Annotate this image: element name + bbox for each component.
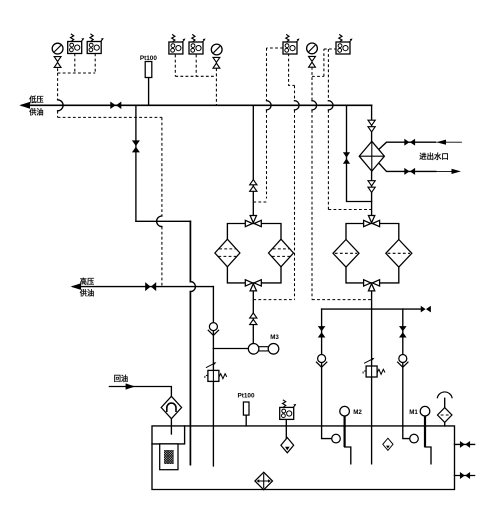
pressure gauge G2 xyxy=(211,44,222,55)
temperature sensor Pt100-2 xyxy=(243,402,249,415)
wire main low-pressure supply line xyxy=(22,104,372,106)
wire return oil line xyxy=(109,387,171,397)
filter diamond left duplex left xyxy=(215,239,240,267)
svg-text:回油: 回油 xyxy=(114,374,128,383)
wire trunk down to tank at x=190 xyxy=(189,221,191,464)
pump circle in tank right xyxy=(410,434,419,443)
three-way changeover valve right duplex top xyxy=(364,216,380,227)
wire block B6 left port pilot xyxy=(267,48,284,199)
strainer mesh in tank xyxy=(164,450,174,464)
check valve diamond under B5 xyxy=(281,438,294,453)
wire hop B6 bottom pilot over main line xyxy=(295,101,300,110)
wire breather drop to tank top xyxy=(444,398,446,426)
svg-text:低压: 低压 xyxy=(28,95,44,104)
wire pump M3 discharge header y=348.5 xyxy=(213,348,248,350)
ball check valve on right pump branch xyxy=(397,355,408,368)
wire pilot connect left duplex bottom y=299.6 xyxy=(253,299,294,301)
shutoff valve on branch x=136 xyxy=(132,140,140,152)
wire high-pressure supply line xyxy=(73,286,213,288)
pressure switch B2 xyxy=(87,34,104,54)
wire return filter to tank box xyxy=(170,419,172,434)
pressure gauge G1 xyxy=(52,43,63,54)
pump circle in tank left xyxy=(332,434,341,443)
wire left pump branch x=321.6 xyxy=(322,309,332,439)
temperature sensor Pt100-1 xyxy=(145,62,152,78)
check valve diamond in tank right xyxy=(383,438,393,450)
heat exchanger cooler xyxy=(359,141,384,171)
wire left duplex loop xyxy=(227,224,281,283)
check valve pair above pump M3 xyxy=(250,313,257,318)
wire right feed corner from main line xyxy=(371,105,373,215)
wire gauge G3 sense line down xyxy=(311,67,313,300)
node arrow high-pressure supply outlet xyxy=(71,283,81,290)
drain diamond with cross on tank bottom xyxy=(255,472,273,490)
wire G3 branch to block B7 left port xyxy=(312,49,336,76)
gauge isolator valve under G1 xyxy=(54,57,61,68)
wire left duplex feed from main line x=253 xyxy=(252,105,254,215)
motor M1 circle xyxy=(420,406,430,416)
wire pilot connect right duplex bottom y=299.6 xyxy=(312,299,372,301)
filter diamond right duplex left xyxy=(333,240,359,268)
motor M2 circle xyxy=(340,406,350,416)
drain valve lower on tank side xyxy=(460,472,470,479)
wire Pt100-2 drop to tank xyxy=(245,415,247,426)
svg-text:Pt100: Pt100 xyxy=(140,55,157,62)
wire right duplex loop xyxy=(346,224,399,283)
air breather arc xyxy=(437,392,452,398)
tank rectangle xyxy=(152,426,455,490)
wire Pt100 sensor drop to main line xyxy=(148,78,150,106)
wire block B6 bottom port pilot xyxy=(289,54,295,300)
valve on HP supply line xyxy=(145,282,156,291)
wire heat-exchanger bypass branch x=346.5 xyxy=(347,105,372,201)
svg-text:Pt100: Pt100 xyxy=(237,393,254,400)
svg-text:M2: M2 xyxy=(353,409,362,416)
wire station1 gauge sense line down xyxy=(57,68,59,117)
check valve pair on right feed upper xyxy=(368,120,375,125)
pressure switch B4 xyxy=(189,34,206,54)
wire right duplex outlet down through relief to tank xyxy=(371,290,373,463)
return oil filter diamond xyxy=(161,396,181,418)
wire station2 manifold dashed y=76.3 xyxy=(175,75,216,77)
check valve pair on left duplex outlet to main xyxy=(250,180,257,185)
pressure switch B3 xyxy=(169,34,186,54)
wire cooler upper water line xyxy=(379,142,436,149)
valve V1 on main supply line xyxy=(110,102,121,110)
ball check valve on HP drop xyxy=(208,323,219,336)
wire M1 pump suction pipe xyxy=(425,447,431,464)
wire right pump branch x=402.8 xyxy=(403,309,410,439)
pump M3 circle pair xyxy=(248,344,259,355)
wire left duplex outlet down to pump M3 xyxy=(252,290,254,343)
valve at pressure header end xyxy=(421,306,431,313)
wire cooler lower water line xyxy=(379,163,436,171)
wire station1 manifold dashed y=73 xyxy=(58,72,96,74)
wire motor M1 shaft into tank xyxy=(424,415,426,447)
three-way changeover valve left duplex bottom xyxy=(245,280,261,291)
valve on lower water line xyxy=(404,168,415,175)
wire hop B6 pilot over main line xyxy=(267,101,272,110)
three-way changeover valve right duplex bottom xyxy=(364,280,380,291)
svg-text:供油: 供油 xyxy=(28,107,43,116)
three-way changeover valve left duplex top xyxy=(245,216,261,227)
tank filter box xyxy=(152,426,185,444)
air breather filter diamond xyxy=(438,408,452,423)
svg-text:高压: 高压 xyxy=(80,277,95,286)
drain valve upper on tank side xyxy=(460,441,470,448)
wire motor M2 shaft into tank xyxy=(344,415,346,447)
ball check valve on left pump branch xyxy=(316,355,327,368)
wire branch down at x=136 xyxy=(135,105,137,221)
wire hop pilot over y=221 run xyxy=(157,216,162,227)
wire M2 pump suction pipe xyxy=(345,447,351,464)
svg-text:M3: M3 xyxy=(270,334,279,341)
wire pilot line y=117 to HP valve xyxy=(58,117,162,286)
relief valve on right duplex drop xyxy=(363,358,385,377)
svg-text:进出水口: 进出水口 xyxy=(419,152,449,161)
wire upper water line inlet with arrow xyxy=(437,141,462,143)
wire lower water line outlet with arrow xyxy=(436,170,460,172)
pressure switch B7 xyxy=(336,34,353,54)
wire tank drain stub upper xyxy=(455,443,475,445)
gauge isolator valve under G3 xyxy=(309,56,316,67)
svg-text:M1: M1 xyxy=(409,409,418,416)
node arrow return oil flow xyxy=(126,383,136,389)
wire hop station1 over main line xyxy=(58,100,64,111)
relief valve on HP drop xyxy=(205,362,227,381)
wire hop B7 pilot over main line xyxy=(328,101,333,110)
pressure gauge G3 xyxy=(307,43,318,54)
pressure switch B5 on tank xyxy=(280,400,297,420)
pressure switch B6 xyxy=(283,34,300,54)
wire block B7 pilot down to right feed xyxy=(328,49,371,210)
wire station2 gauge sense line to main xyxy=(215,68,217,105)
valve on right pump branch xyxy=(399,326,407,337)
wire tank drain stub lower xyxy=(455,475,475,477)
wire pump pressure header y=309.1 xyxy=(322,308,421,310)
wire HP drop to relief and tank at x=213 xyxy=(212,287,214,466)
tank strainer box xyxy=(160,444,178,470)
wire pressure switch drop to check diamond in tank xyxy=(285,420,287,437)
gauge isolator valve under G2 xyxy=(213,57,220,68)
node arrow low-pressure supply outlet xyxy=(19,102,30,109)
wire station1 switch drops xyxy=(75,54,95,74)
check valve pair under cooler xyxy=(368,181,375,186)
valve on upper water line xyxy=(404,139,415,146)
wire station2 switch drops xyxy=(175,55,196,77)
wire pilot connect to left duplex feed y=202 xyxy=(253,201,266,203)
filter diamond right duplex right xyxy=(386,240,412,268)
wire horizontal run y=221 xyxy=(136,220,191,222)
filter diamond left duplex right xyxy=(269,239,294,267)
wire hop of trunk over HP line xyxy=(190,282,195,292)
bypass valve on x=346.5 xyxy=(343,152,350,163)
wire hop G3 over main line xyxy=(312,101,317,110)
pressure switch B1 xyxy=(68,34,85,54)
valve on left pump branch xyxy=(318,326,326,337)
svg-text:供油: 供油 xyxy=(79,289,94,298)
